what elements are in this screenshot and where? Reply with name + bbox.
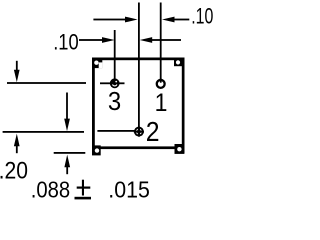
corner standoff top-right <box>174 58 185 67</box>
pin 3 (filled pad with white ring detail) <box>100 78 125 88</box>
label .10 (pin3 to pin2 spacing) <box>53 31 78 55</box>
pin 1 (open circle pad) <box>157 78 165 88</box>
svg-text:.10: .10 <box>53 31 78 55</box>
extension line B (pin 2 row) <box>3 131 84 133</box>
label .20 <box>0 157 28 184</box>
dimension arrow row2 right, points left at pin 2 line <box>140 37 181 43</box>
dimension arrow row2 left, points right at pin 3 line <box>79 37 115 43</box>
pin 1 label <box>155 89 168 117</box>
corner standoff bottom-left <box>92 145 101 155</box>
trimmer body outline (bottom view) <box>92 58 185 155</box>
extension line pin 1 (vertical) <box>160 3 162 85</box>
corner standoff bottom-right <box>175 144 185 154</box>
dimension arrow .088 top, points down at line B <box>64 93 70 132</box>
dimension arrow .20 bottom, points up at line B <box>14 134 20 154</box>
extension line pin 2 (vertical) <box>138 3 140 129</box>
svg-text:1: 1 <box>155 89 168 117</box>
pin 2 (filled pad with crosshair detail) <box>97 127 144 137</box>
svg-text:.20: .20 <box>0 157 28 184</box>
dimension arrow .20 top, points down at line A <box>14 61 20 83</box>
corner standoff top-left <box>92 58 102 69</box>
label .088 ± .015 <box>31 176 150 203</box>
svg-text:3: 3 <box>108 87 121 116</box>
extension line C (body bottom edge) <box>54 152 86 154</box>
extension line A (pins 3 and 1 row) <box>7 82 86 84</box>
dimension arrow row1 left, points right at pin 2 line <box>93 17 137 23</box>
dimension arrow .088 bottom, points up at line C <box>64 155 70 175</box>
svg-text:2: 2 <box>146 116 160 148</box>
svg-text:.015: .015 <box>108 177 150 200</box>
svg-text:.10: .10 <box>191 5 213 29</box>
dimension arrow row1 right, points left at pin 1 line <box>162 17 189 23</box>
extension line pin 3 (vertical) <box>114 30 116 83</box>
pin 3 label <box>108 87 121 116</box>
svg-text:.088: .088 <box>31 176 70 200</box>
pin 2 label <box>146 116 160 148</box>
label .10 (pin2 to pin1 spacing) <box>191 5 213 29</box>
